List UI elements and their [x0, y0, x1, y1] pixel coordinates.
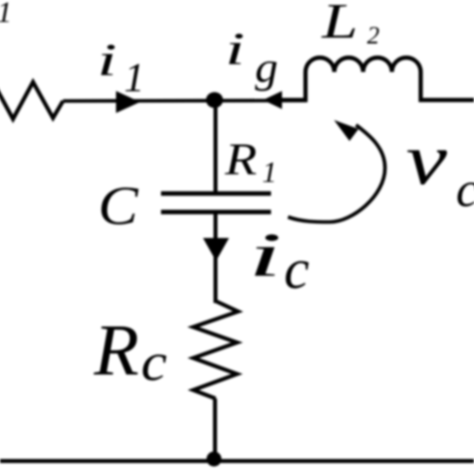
node B (bottom junction) — [207, 452, 222, 467]
capacitor C top plate — [161, 191, 271, 196]
svg-text:i: i — [225, 23, 245, 74]
inductor L2 — [282, 58, 474, 100]
wire top (left resistor to inductor) — [63, 99, 307, 103]
svg-text:v: v — [406, 119, 448, 200]
node A (top junction) — [206, 92, 223, 108]
svg-text:c: c — [456, 161, 474, 217]
svg-text:g: g — [255, 45, 278, 92]
arrowhead vc — [334, 120, 359, 141]
svg-text:L: L — [321, 0, 358, 49]
voltage arc vc — [288, 125, 385, 222]
resistor R1 (cut off at left edge) — [0, 82, 63, 119]
arrow i1 (current direction) — [116, 91, 140, 113]
svg-text:R: R — [224, 134, 257, 185]
svg-text:c: c — [284, 238, 309, 301]
resistor Rc — [193, 301, 238, 399]
svg-text:2: 2 — [367, 23, 380, 50]
capacitor C bottom plate — [161, 210, 271, 215]
svg-text:1: 1 — [124, 54, 145, 100]
arrow ic (current direction, down) — [203, 238, 229, 261]
wire node to capacitor — [214, 100, 218, 193]
svg-text:1: 1 — [0, 0, 12, 29]
svg-text:1: 1 — [262, 156, 277, 189]
svg-text:C: C — [98, 175, 139, 236]
wire bottom (ground rail) — [0, 459, 474, 463]
wire capacitor to arrow — [214, 212, 218, 250]
svg-text:c: c — [141, 332, 167, 392]
wire arrow to resistor Rc — [214, 255, 218, 303]
svg-text:i: i — [97, 34, 117, 85]
svg-text:R: R — [93, 310, 139, 391]
wire resistor to bottom node — [213, 399, 217, 460]
arrow ig (current direction) — [263, 91, 282, 109]
svg-text:i: i — [248, 222, 282, 290]
